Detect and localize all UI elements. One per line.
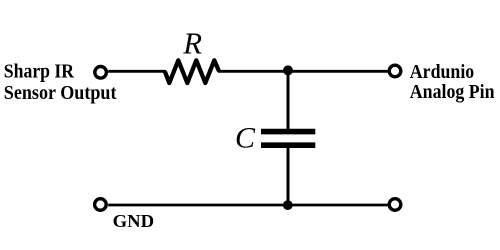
svg-text:C: C <box>235 121 256 154</box>
svg-text:Analog Pin: Analog Pin <box>410 81 495 103</box>
svg-text:R: R <box>182 27 202 61</box>
svg-text:Sharp IR: Sharp IR <box>4 61 75 83</box>
svg-text:Sensor Output: Sensor Output <box>4 82 117 104</box>
svg-text:Ardunio: Ardunio <box>410 61 474 83</box>
svg-text:GND: GND <box>113 211 155 231</box>
